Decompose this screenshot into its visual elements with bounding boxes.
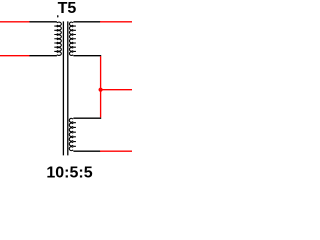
wire right-bottom red <box>100 150 132 152</box>
wire right-top red <box>100 21 132 23</box>
svg-text:T5: T5 <box>58 0 77 17</box>
transformer core <box>62 21 64 155</box>
wire left-top red <box>0 21 30 23</box>
svg-text:10:5:5: 10:5:5 <box>46 164 92 181</box>
wire vertical red lower <box>100 90 102 118</box>
wire sec2-top black <box>73 117 101 119</box>
wire left-bottom red <box>0 55 30 57</box>
wire right-top black <box>73 21 100 23</box>
phase dot primary <box>57 15 58 18</box>
wire left-top black <box>30 21 57 23</box>
transformer T5 secondary winding bottom <box>69 118 76 150</box>
wire right-bottom black <box>73 150 100 152</box>
wire vertical red upper <box>100 56 102 89</box>
wire right-middle red <box>101 89 132 91</box>
transformer T5 secondary winding top <box>69 22 75 55</box>
wire left-bottom black <box>30 55 57 57</box>
wire sec1-bottom black <box>73 55 101 57</box>
junction node <box>99 88 103 92</box>
transformer T5 primary winding <box>54 22 61 55</box>
